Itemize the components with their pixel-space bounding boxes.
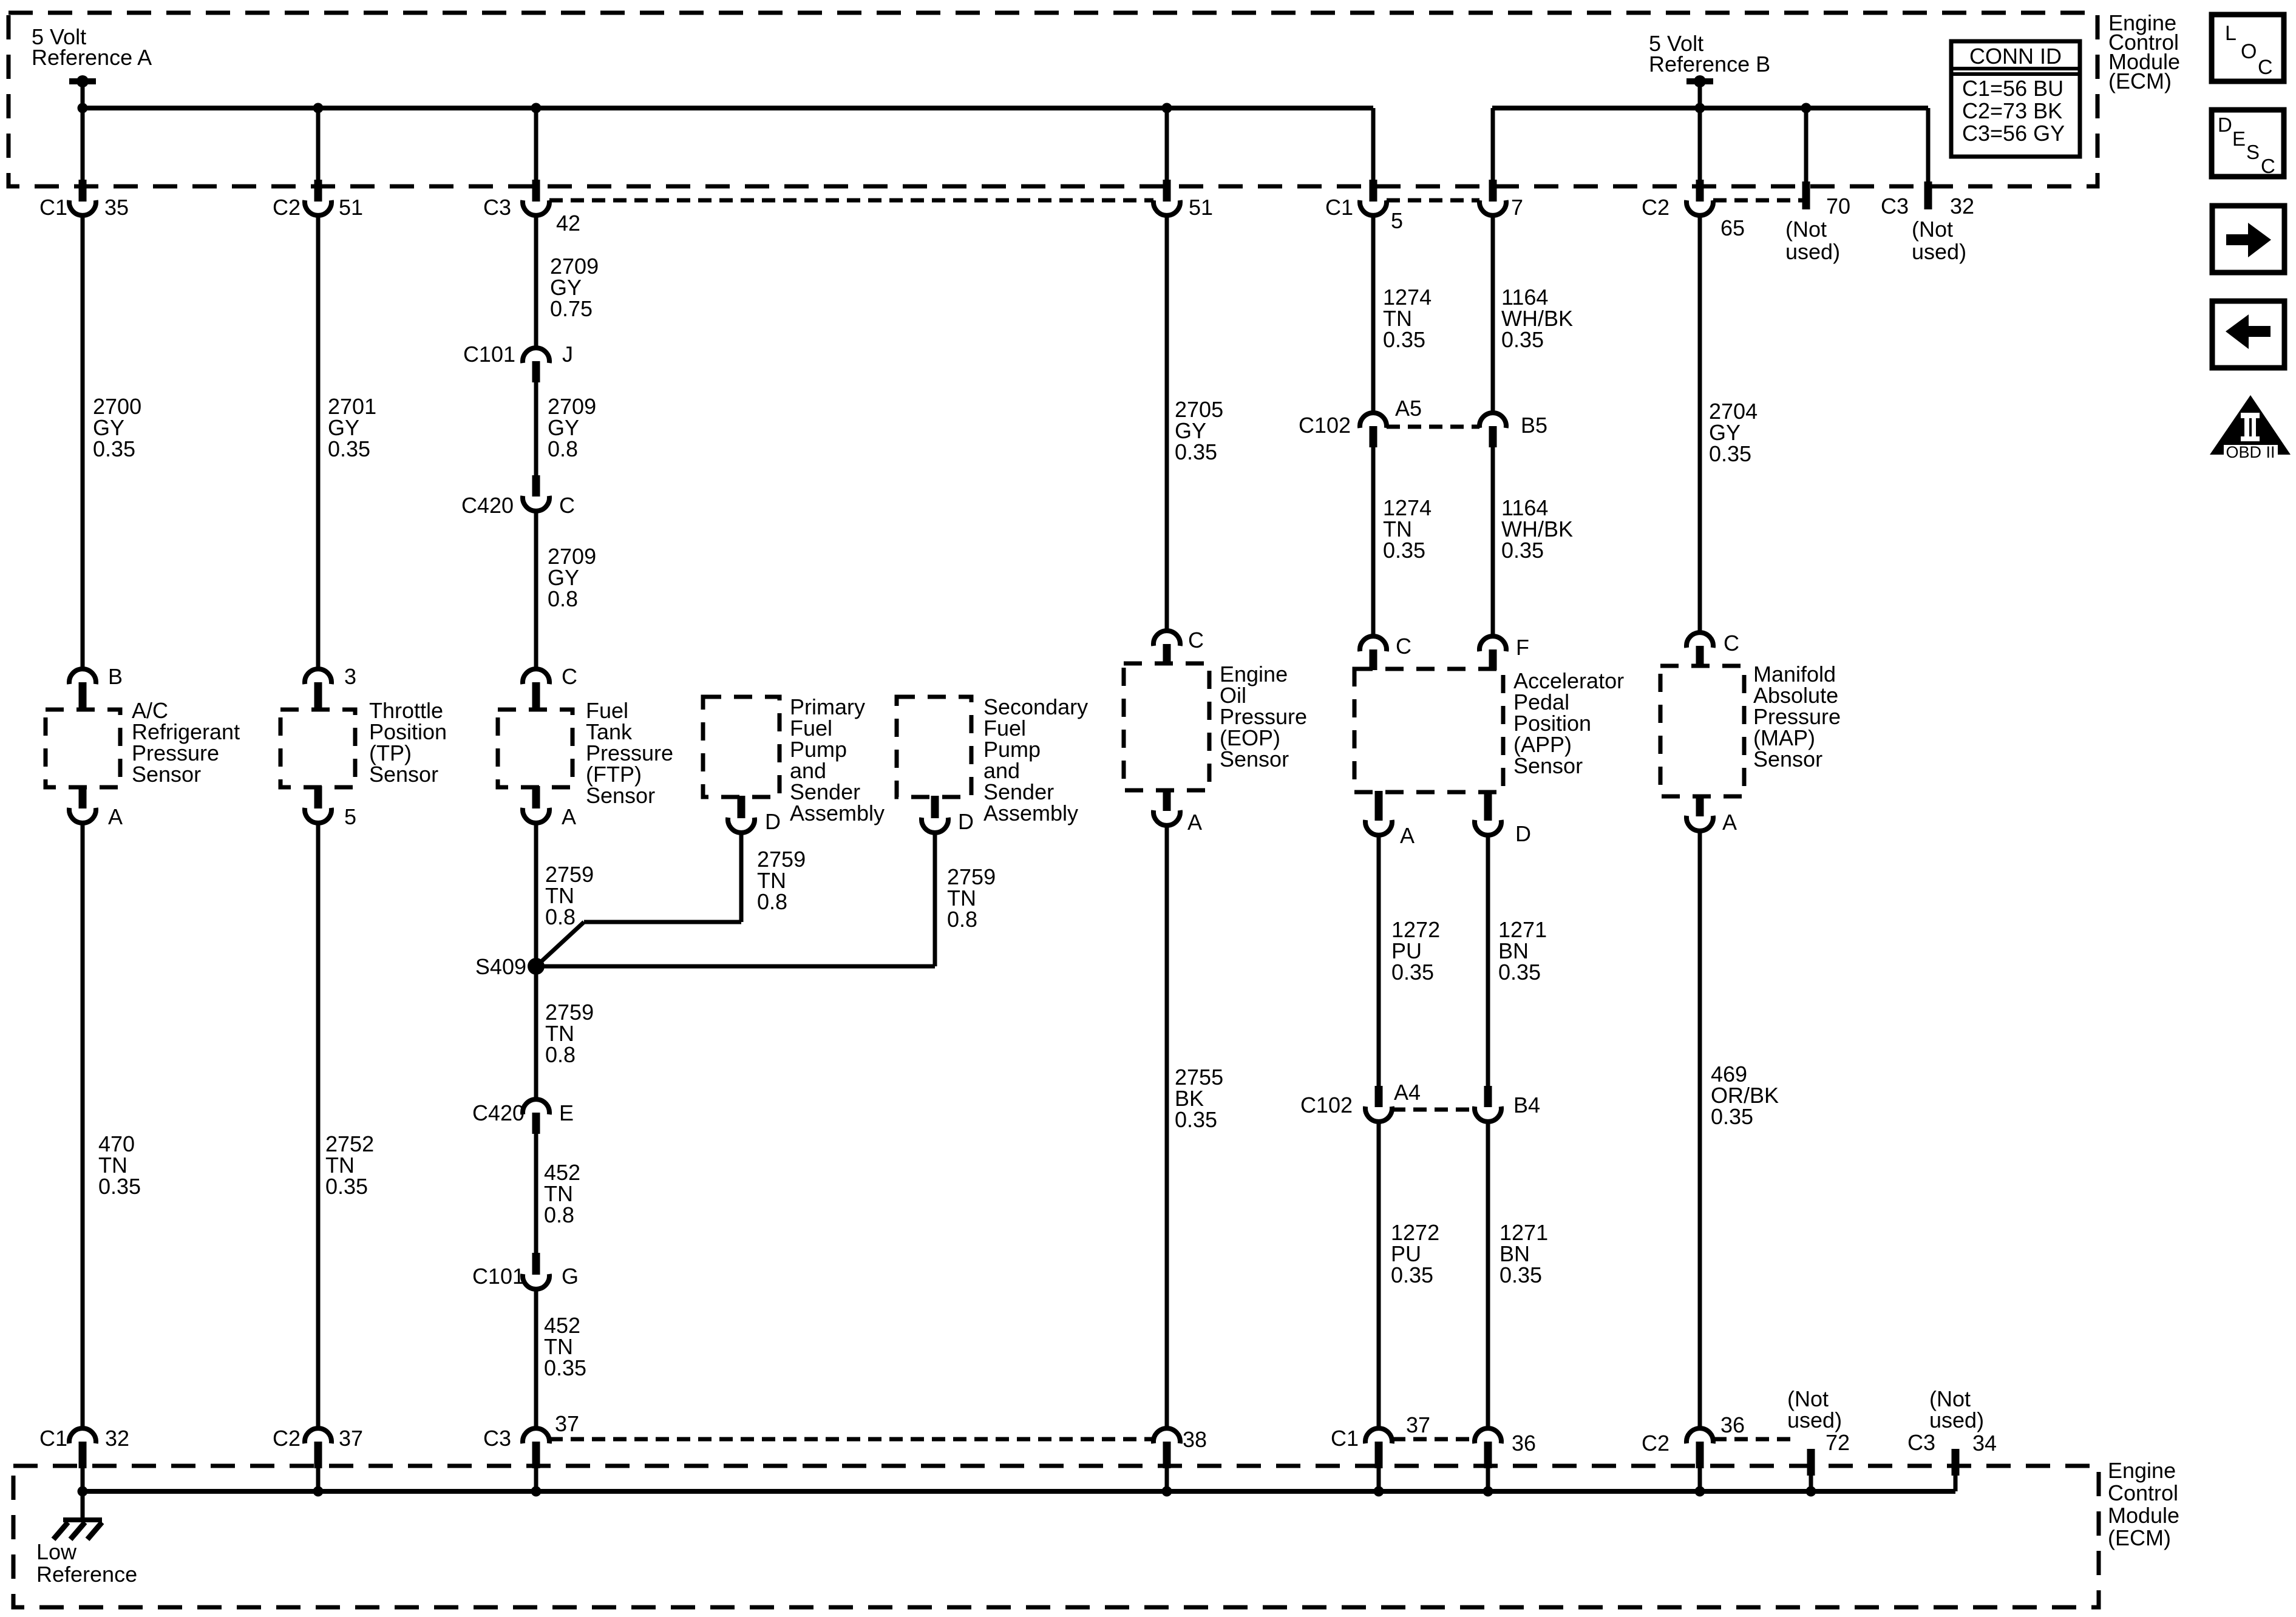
A/C Refrigerant Pressure Sensor box [46, 710, 120, 787]
svg-text:D: D [958, 809, 974, 834]
Engine Oil Pressure Sensor box [1124, 663, 1209, 790]
wire S409 diagonal [536, 922, 584, 966]
svg-text:0.8: 0.8 [545, 1042, 576, 1067]
svg-text:used): used) [1785, 239, 1840, 264]
pin 7 [1489, 180, 1497, 202]
wire col1 top [81, 108, 85, 180]
Fuel Tank Pressure Sensor box [498, 710, 572, 787]
wire col2 to bus [316, 1468, 321, 1491]
wire col4 2755 [1165, 825, 1169, 1428]
wire dotted A5-B5 [1387, 425, 1479, 429]
svg-text:C3: C3 [483, 195, 511, 220]
svg-text:Sensor: Sensor [1513, 753, 1583, 778]
svg-text:B5: B5 [1521, 413, 1547, 438]
svg-text:C: C [1188, 628, 1204, 653]
wire Low Reference bus [83, 1489, 1955, 1494]
pin C1-37 [1365, 1428, 1392, 1443]
svg-text:Reference: Reference [36, 1562, 137, 1587]
pin A APP [1375, 791, 1383, 821]
pin 36 [1475, 1428, 1501, 1443]
svg-text:S: S [2246, 141, 2260, 163]
pin A FTP [532, 786, 540, 808]
wire col5 1274b [1371, 447, 1376, 636]
svg-text:C: C [2261, 155, 2275, 177]
pin A MAP [1696, 795, 1704, 816]
svg-text:0.75: 0.75 [550, 296, 593, 321]
svg-text:70: 70 [1826, 194, 1850, 219]
svg-text:Sensor: Sensor [132, 762, 201, 787]
wire col8 bottom lead [1809, 1476, 1813, 1491]
svg-text:used): used) [1787, 1408, 1842, 1432]
wire dotted 65-70 [1713, 198, 1802, 203]
pin C2-65 [1696, 180, 1704, 202]
wire col3 2709b [534, 382, 538, 475]
svg-text:0.8: 0.8 [544, 1202, 574, 1227]
svg-text:C420: C420 [472, 1100, 525, 1125]
svg-text:36: 36 [1720, 1412, 1745, 1437]
svg-text:A4: A4 [1394, 1080, 1421, 1105]
wire dotted 5-7 [1387, 198, 1479, 203]
svg-text:(ECM): (ECM) [2108, 69, 2172, 93]
wire col2 2701 [316, 215, 321, 669]
svg-text:51: 51 [339, 195, 363, 220]
svg-text:0.8: 0.8 [545, 904, 576, 929]
svg-text:0.35: 0.35 [328, 436, 370, 461]
pin 70 (not used) [1802, 181, 1810, 209]
svg-text:C: C [1396, 634, 1411, 659]
svg-text:A: A [1187, 810, 1202, 835]
pin C1-32 [69, 1428, 96, 1443]
svg-text:C3=56 GY: C3=56 GY [1962, 121, 2065, 146]
svg-text:C: C [562, 664, 577, 689]
svg-text:B: B [108, 664, 123, 689]
pin 72 (not used) [1807, 1449, 1815, 1476]
svg-text:C2: C2 [1642, 195, 1669, 220]
connector C101-J [523, 348, 549, 363]
svg-text:51: 51 [1189, 195, 1213, 220]
pin F APP [1479, 636, 1506, 651]
svg-text:0.35: 0.35 [1501, 538, 1544, 563]
wire col5 1272a [1377, 835, 1381, 1086]
wire col7 top [1698, 108, 1702, 180]
svg-text:D: D [765, 809, 781, 834]
pin C1-5 [1370, 180, 1377, 202]
svg-text:C: C [2258, 56, 2273, 79]
pin C APP [1360, 636, 1387, 651]
svg-text:32: 32 [105, 1426, 129, 1451]
svg-text:C3: C3 [1881, 194, 1909, 219]
svg-text:7: 7 [1511, 195, 1523, 220]
svg-text:Sensor: Sensor [369, 762, 438, 787]
Manifold Absolute Pressure Sensor box [1660, 666, 1744, 796]
svg-text:C102: C102 [1299, 413, 1351, 438]
pin D primary pump [738, 796, 746, 818]
wire col3 2759 [534, 823, 538, 966]
wire col3 452 [534, 1134, 538, 1253]
svg-text:34: 34 [1972, 1431, 1997, 1456]
wire col7 2704 [1698, 215, 1702, 632]
svg-text:OBD II: OBD II [2226, 443, 2275, 461]
svg-text:F: F [1516, 635, 1529, 660]
svg-text:A: A [1722, 810, 1737, 835]
svg-text:Assembly: Assembly [983, 801, 1078, 825]
svg-text:D: D [2218, 114, 2232, 136]
connector C420-E [523, 1099, 549, 1114]
svg-text:Engine: Engine [2108, 1458, 2176, 1483]
svg-text:0.35: 0.35 [1501, 327, 1544, 352]
icon LOC [2212, 15, 2284, 81]
pin 3 TP [305, 669, 331, 684]
ECM bottom dashed box [13, 1466, 2099, 1607]
svg-text:C: C [1724, 631, 1739, 656]
pin C3-42 [532, 180, 540, 202]
svg-text:C1: C1 [39, 195, 67, 220]
svg-text:C101: C101 [463, 342, 515, 367]
pin A A/C [79, 786, 87, 808]
svg-text:0.35: 0.35 [1500, 1263, 1542, 1287]
svg-text:used): used) [1912, 239, 1966, 264]
svg-text:L: L [2225, 22, 2237, 45]
svg-text:G: G [562, 1264, 579, 1289]
wire col5 1272b [1377, 1122, 1381, 1428]
junction dots top bus [78, 103, 88, 114]
svg-text:A: A [562, 804, 576, 829]
svg-text:0.35: 0.35 [1391, 960, 1434, 985]
svg-text:(ECM): (ECM) [2108, 1525, 2171, 1550]
svg-text:3: 3 [344, 664, 356, 689]
svg-text:0.35: 0.35 [1175, 439, 1217, 464]
svg-text:C2=73 BK: C2=73 BK [1962, 98, 2062, 123]
svg-text:D: D [1515, 821, 1531, 846]
pin C3-34 (not used) [1952, 1449, 1960, 1476]
svg-text:72: 72 [1826, 1430, 1850, 1455]
svg-text:38: 38 [1183, 1427, 1207, 1452]
svg-text:5: 5 [344, 804, 356, 829]
connector C102-B4 [1484, 1086, 1492, 1107]
pin C MAP [1686, 632, 1713, 648]
pin C2-37 [305, 1428, 331, 1443]
Secondary Fuel Pump box [897, 697, 971, 797]
svg-text:(Not: (Not [1785, 217, 1827, 242]
junction dots bottom bus [78, 1486, 88, 1497]
Primary Fuel Pump box [703, 697, 779, 797]
svg-text:C: C [559, 493, 575, 518]
svg-text:C3: C3 [483, 1426, 511, 1451]
wire col3 2709c [534, 511, 538, 669]
svg-text:C1: C1 [39, 1426, 67, 1451]
wire col6 1164b [1491, 447, 1495, 636]
svg-text:37: 37 [555, 1411, 579, 1436]
svg-text:E: E [559, 1100, 574, 1125]
svg-text:0.35: 0.35 [1383, 538, 1425, 563]
pin C3-37 [523, 1428, 549, 1443]
pin C3-32 (not used) [1924, 181, 1932, 209]
wire col7 469 [1698, 831, 1702, 1428]
svg-text:Assembly: Assembly [790, 801, 885, 825]
wire col3 2709a [534, 215, 538, 348]
pin C2-36 [1686, 1428, 1713, 1443]
connector C420-C [532, 475, 540, 497]
wire col3 to bus [534, 1468, 538, 1491]
wire col6 to bus [1486, 1468, 1490, 1491]
svg-text:65: 65 [1720, 215, 1745, 240]
svg-text:C2: C2 [273, 195, 301, 220]
wire col1 to bus [81, 1468, 85, 1491]
svg-text:O: O [2241, 40, 2257, 63]
wire dotted 37-36 [1392, 1437, 1475, 1442]
svg-text:Sensor: Sensor [1220, 747, 1289, 771]
svg-text:used): used) [1929, 1408, 1984, 1432]
wire 5V Reference A bus [83, 106, 1373, 110]
wire col5 to bus [1377, 1468, 1381, 1491]
ECM top dashed box [8, 13, 2097, 186]
svg-text:C1: C1 [1331, 1426, 1359, 1451]
svg-text:37: 37 [1406, 1412, 1430, 1437]
wire col6 1164a [1491, 215, 1495, 413]
wire col1 470 [81, 823, 85, 1428]
svg-text:0.35: 0.35 [325, 1174, 368, 1199]
pin C EOP [1153, 631, 1180, 646]
svg-text:0.35: 0.35 [544, 1355, 586, 1380]
CONN ID table [1951, 41, 2080, 157]
pin 51 [1163, 180, 1171, 202]
svg-text:C102: C102 [1300, 1093, 1353, 1117]
pin C1-35 [79, 180, 87, 202]
wire dotted 36-72 [1713, 1437, 1798, 1442]
svg-text:Reference A: Reference A [32, 45, 152, 70]
svg-text:C1: C1 [1325, 195, 1353, 220]
svg-text:0.35: 0.35 [1498, 960, 1541, 985]
svg-text:(Not: (Not [1912, 217, 1953, 242]
svg-text:0.8: 0.8 [548, 436, 578, 461]
svg-text:0.35: 0.35 [93, 436, 135, 461]
wire col4 top [1165, 108, 1169, 180]
svg-text:C101: C101 [472, 1264, 525, 1289]
svg-text:C2: C2 [1642, 1431, 1669, 1456]
wire col4 2705 [1165, 215, 1169, 631]
connector C102-A4 [1375, 1086, 1383, 1107]
pin 38 [1153, 1428, 1180, 1443]
svg-text:A: A [108, 804, 123, 829]
wire col9 bottom lead [1954, 1476, 1958, 1491]
icon left arrow [2212, 301, 2284, 368]
wire col4 to bus [1165, 1468, 1169, 1491]
ground [81, 1491, 85, 1520]
svg-text:Low: Low [36, 1539, 77, 1564]
svg-text:C2: C2 [273, 1426, 301, 1451]
pin 5 TP [314, 786, 322, 808]
svg-text:B4: B4 [1513, 1093, 1540, 1117]
svg-text:0.8: 0.8 [947, 907, 977, 932]
icon right arrow [2212, 206, 2284, 273]
wire dotted 42-51 [549, 198, 1153, 203]
icon OBD II [2210, 395, 2291, 455]
wire col3 top [534, 108, 538, 180]
wire col5 top [1371, 108, 1376, 180]
wire dotted A4-B4 [1392, 1108, 1475, 1112]
pin A EOP [1163, 789, 1171, 811]
svg-text:0.8: 0.8 [757, 889, 787, 914]
svg-text:C420: C420 [461, 493, 514, 518]
connector C102-B5 [1479, 413, 1506, 428]
pin B A/C [69, 669, 96, 684]
svg-text:0.35: 0.35 [1711, 1104, 1753, 1129]
svg-text:32: 32 [1950, 194, 1974, 219]
wire col6 top [1491, 108, 1495, 180]
wire col2 2752 [316, 823, 321, 1428]
wire col8 top stub lead [1804, 108, 1809, 181]
svg-text:0.35: 0.35 [1391, 1263, 1433, 1287]
svg-text:0.35: 0.35 [1709, 441, 1751, 466]
svg-text:42: 42 [556, 211, 580, 236]
wire col3 2759b [534, 966, 538, 1099]
svg-text:A: A [1400, 823, 1415, 848]
pin C FTP [523, 669, 549, 684]
wire col6 1271b [1486, 1122, 1490, 1428]
node 5 Volt Reference A terminal [69, 78, 96, 84]
svg-text:Module: Module [2108, 1503, 2179, 1528]
wire col7 to bus [1698, 1468, 1702, 1491]
svg-text:36: 36 [1512, 1431, 1536, 1456]
pin D APP [1484, 791, 1492, 821]
svg-text:Sensor: Sensor [1753, 747, 1822, 771]
wire col6 1271a [1486, 835, 1490, 1086]
svg-text:0.8: 0.8 [548, 586, 578, 611]
svg-text:5: 5 [1391, 208, 1403, 233]
wire 5V Reference B bus [1492, 106, 1928, 110]
Accelerator Pedal Position Sensor box [1354, 669, 1503, 792]
svg-text:J: J [562, 342, 573, 367]
svg-text:Reference B: Reference B [1649, 52, 1770, 76]
wire col3 452b [534, 1289, 538, 1428]
wire dotted 37-38 [549, 1437, 1153, 1442]
wire S409 to secondary pump [536, 964, 935, 969]
svg-text:E: E [2232, 127, 2246, 150]
Throttle Position Sensor box [280, 710, 355, 787]
svg-text:Sensor: Sensor [586, 783, 655, 808]
pin C2-51 [314, 180, 322, 202]
connector C101-G [532, 1253, 540, 1275]
svg-text:C1=56 BU: C1=56 BU [1962, 76, 2063, 101]
svg-text:0.35: 0.35 [98, 1174, 141, 1199]
connector C102-A5 [1360, 413, 1387, 428]
pin D secondary pump [931, 796, 939, 818]
svg-text:35: 35 [104, 195, 129, 220]
wire col5 1274a [1371, 215, 1376, 413]
wire S409 to primary pump [584, 920, 741, 924]
svg-text:0.35: 0.35 [1175, 1107, 1217, 1132]
wire col1 2700 [81, 215, 85, 669]
svg-text:A5: A5 [1395, 396, 1422, 421]
wire col9 top lead [1926, 108, 1931, 181]
svg-text:0.35: 0.35 [1383, 327, 1425, 352]
svg-text:CONN ID: CONN ID [1969, 44, 2062, 69]
svg-text:Control: Control [2108, 1480, 2178, 1505]
node S409 [528, 958, 545, 975]
node 5 Volt Reference B terminal [1686, 78, 1713, 84]
svg-text:C3: C3 [1907, 1430, 1935, 1455]
icon DESC [2212, 110, 2284, 177]
wire col2 top [316, 108, 321, 180]
svg-text:S409: S409 [475, 954, 526, 979]
svg-text:37: 37 [339, 1426, 363, 1451]
